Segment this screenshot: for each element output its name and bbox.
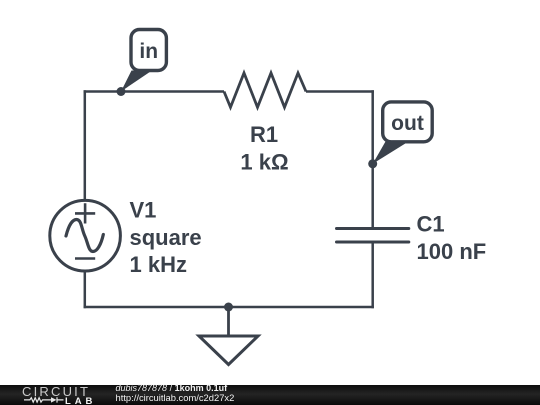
svg-text:in: in	[139, 40, 158, 63]
ground stem wire	[227, 307, 230, 336]
V1 sine wave	[66, 220, 103, 252]
voltage source V1 circle	[50, 200, 121, 271]
svg-text:1 kHz: 1 kHz	[130, 252, 187, 277]
capacitor C1 bottom plate	[337, 241, 409, 244]
footer url line	[116, 393, 235, 402]
wire left vertical upper (top corner to V1 top)	[84, 90, 87, 201]
ground symbol triangle	[199, 336, 258, 365]
node out flag box	[383, 102, 433, 142]
CircuitLab logo	[0, 384, 110, 405]
node in flag box	[131, 30, 166, 71]
wire right vertical upper (top corner to C1)	[371, 90, 374, 227]
logo wire with resistor	[24, 398, 51, 402]
svg-text:1 kΩ: 1 kΩ	[240, 149, 288, 174]
svg-text:LAB: LAB	[65, 396, 96, 405]
svg-text:out: out	[391, 112, 424, 135]
footer bar	[0, 385, 540, 405]
node in junction dot	[117, 87, 126, 96]
wire top-left horizontal (in node to R1)	[84, 90, 224, 93]
footer title line	[116, 384, 228, 393]
node out junction dot	[368, 159, 377, 168]
logo diode	[51, 397, 57, 402]
node in flag pointer	[121, 71, 152, 92]
svg-text:V1: V1	[130, 198, 157, 223]
node out flag pointer	[373, 142, 409, 164]
svg-text:square: square	[130, 225, 202, 250]
resistor R1	[224, 73, 306, 107]
capacitor C1 top plate	[337, 227, 409, 230]
V1 minus sign	[75, 257, 95, 260]
wire left vertical lower (V1 bottom to bottom rail)	[84, 271, 87, 308]
wire right vertical lower (C1 to bottom rail)	[371, 243, 374, 308]
svg-text:100 nF: 100 nF	[417, 239, 487, 264]
wire bottom rail	[84, 306, 374, 309]
ground node junction dot	[224, 303, 233, 312]
svg-text:C1: C1	[417, 211, 445, 236]
V1 plus sign	[75, 203, 95, 223]
svg-text:R1: R1	[250, 122, 278, 147]
wire R1 to top-right corner	[306, 90, 374, 93]
